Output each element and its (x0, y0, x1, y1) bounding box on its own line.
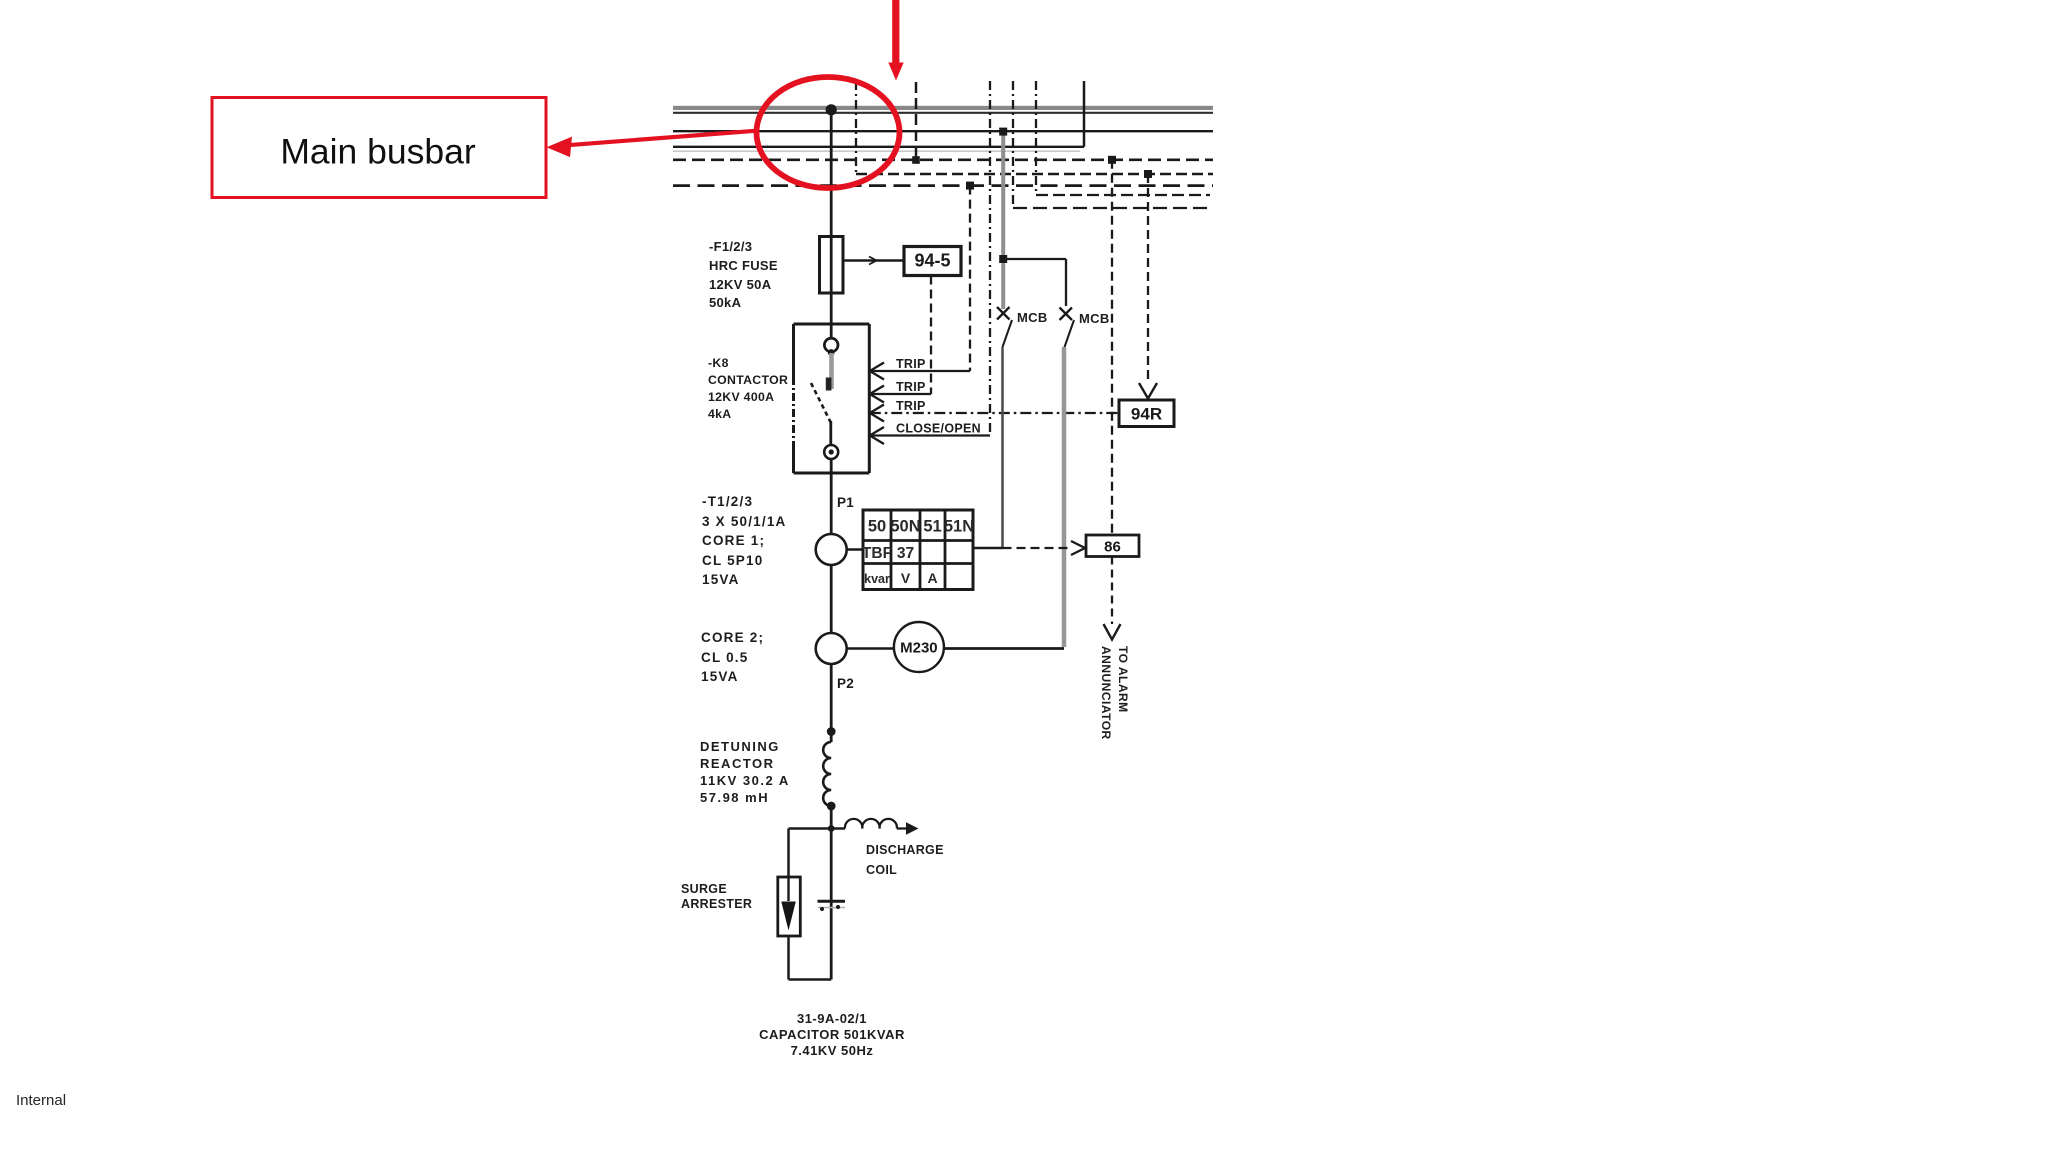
close/open arrow (870, 427, 884, 444)
stub wire solid x=1084 (1083, 81, 1086, 147)
relay 86 box (1086, 535, 1139, 557)
stub wire dashed x=916 (915, 82, 918, 160)
label P1 (837, 495, 854, 510)
junction dot (970,185.6) (966, 182, 974, 190)
relay function table (862, 510, 974, 590)
svg-text:94-5: 94-5 (914, 251, 950, 271)
label MCB 2 (1079, 311, 1110, 326)
wire reactor to capacitor (830, 806, 833, 980)
svg-text:CLOSE/OPEN: CLOSE/OPEN (896, 422, 981, 436)
junction dot on busbar (826, 104, 837, 115)
bus line 3 (solid, ends at x=1084) (673, 147, 1084, 151)
trip line 1 (870, 370, 970, 372)
svg-text:94R: 94R (1131, 405, 1162, 424)
CT P1 (core 1) (816, 534, 847, 565)
branch dashed line y=208 (1013, 207, 1210, 209)
node discharge branch junction (828, 825, 835, 832)
detuning reactor coil (823, 742, 831, 806)
wire arrester drop (787, 829, 790, 878)
svg-text:TRIP: TRIP (896, 357, 926, 371)
MCB branch wire to MCB2 (1003, 259, 1066, 306)
red arrow to callout box (547, 131, 758, 157)
bus line 6 (dashed) (673, 184, 1213, 187)
red highlight ellipse (757, 77, 900, 188)
bus line 4 (dashed) (673, 159, 1213, 162)
svg-text:50N: 50N (890, 518, 920, 536)
label contactor (708, 355, 788, 424)
label fuse (709, 238, 778, 313)
wire MCB2 drop (gray) (1062, 347, 1067, 647)
label CT1 (702, 492, 787, 590)
stub wire dash-dot x=990 (989, 81, 991, 436)
trip line 2 (870, 393, 931, 395)
contactor blade (811, 383, 831, 445)
wire CT2 down to reactor (830, 664, 833, 742)
wire relay to 86 (dashed) (1003, 541, 1086, 555)
contactor K8 box (794, 324, 870, 473)
svg-text:50: 50 (868, 518, 886, 536)
svg-text:TRIP: TRIP (896, 380, 926, 394)
label MCB 1 (1017, 310, 1048, 325)
label discharge coil (866, 841, 944, 880)
MCB2 switch X (1060, 308, 1075, 348)
surge arrester box (778, 877, 801, 936)
svg-text:37: 37 (897, 545, 914, 562)
trip arrow 1 (870, 363, 884, 380)
red callout box (212, 98, 546, 198)
svg-text:M230: M230 (900, 640, 938, 657)
label surge arrester (681, 882, 752, 913)
stub wire dash-dot x=1013 (1012, 81, 1014, 208)
label detuning reactor (700, 738, 790, 806)
junction dot (916,160) (912, 156, 920, 164)
wire contactor to CT1 (830, 459, 833, 534)
relay 94R box (1119, 400, 1174, 427)
svg-text:V: V (901, 570, 911, 586)
wire relay output (973, 547, 1003, 550)
wire MCB1 to relay (dark) (1001, 347, 1004, 548)
trip line 3 (dash-dot to 94R) (870, 412, 1119, 414)
svg-text:Main busbar: Main busbar (280, 132, 476, 172)
trip arrow 2 (870, 386, 884, 403)
wire 86 to annunciator (dashed) (1104, 557, 1121, 640)
junction dot (1003,259) (999, 255, 1007, 263)
junction dot (831,731) (827, 727, 836, 736)
label P2 (837, 676, 854, 691)
svg-text:kvar: kvar (864, 572, 890, 586)
meter M230 (894, 622, 944, 672)
wire trip1 riser (dashed x=970) (969, 186, 971, 371)
svg-text:TO ALARMANNUNCIATOR: TO ALARMANNUNCIATOR (1099, 646, 1130, 740)
CT P2 (core 2) (816, 633, 847, 664)
MCB1 switch X (997, 307, 1012, 347)
trip arrow 3 (870, 405, 884, 422)
wire meter to MCB2 drop (944, 647, 1064, 650)
branch dashed line y=195 (1036, 194, 1210, 196)
stub wire dash-dot x=856 (855, 81, 857, 174)
red down arrow (888, 0, 903, 81)
junction dot (1148,174) (1144, 170, 1152, 178)
svg-text:51: 51 (923, 518, 941, 536)
junction dot (1112,160) (1108, 156, 1116, 164)
close/open line (870, 434, 990, 436)
contactor armature bar (826, 353, 832, 391)
wire CT1 to CT2 (830, 565, 833, 633)
svg-text:86: 86 (1104, 539, 1121, 556)
wire MCB1 drop (gray) (1001, 131, 1005, 309)
bus line 5 (dashed, starts x=856) (856, 173, 1213, 176)
fuse -F1/2/3 (820, 237, 844, 294)
label CT2 (701, 628, 764, 687)
main busbar (thick gray) (673, 106, 1213, 113)
capacitor plates (818, 901, 846, 911)
label capacitor bank (682, 1011, 982, 1058)
junction dot (831,806) (827, 802, 836, 811)
main feeder wire (830, 108, 833, 345)
svg-text:TRIP: TRIP (896, 399, 926, 413)
wire arrester bottom return (789, 936, 832, 980)
discharge coil (831, 819, 918, 835)
wire riser to 86 (dashed x=1112) (1111, 160, 1113, 535)
junction dot (1003,131) (999, 128, 1007, 136)
label Internal (16, 1092, 66, 1109)
relay 94-5 box (904, 247, 961, 276)
wire riser to 94R (dashed x=1148) (1139, 174, 1157, 399)
wire fuse to relay 94-5 (843, 257, 904, 265)
contactor top contact (824, 338, 838, 356)
wire CT1 to relay table (847, 548, 864, 551)
wire CT2 to meter (847, 647, 894, 650)
svg-text:51N: 51N (944, 518, 974, 536)
svg-text:A: A (927, 570, 937, 586)
wire 94-5 to trip2 (dashed riser) (930, 276, 932, 395)
bus line 2 (solid) (673, 130, 1213, 132)
stub wire dash-dot x=1036 (1035, 81, 1037, 195)
contactor bottom contact (824, 445, 838, 459)
wire junction to arrester (789, 827, 832, 830)
svg-text:TBF: TBF (862, 545, 892, 562)
